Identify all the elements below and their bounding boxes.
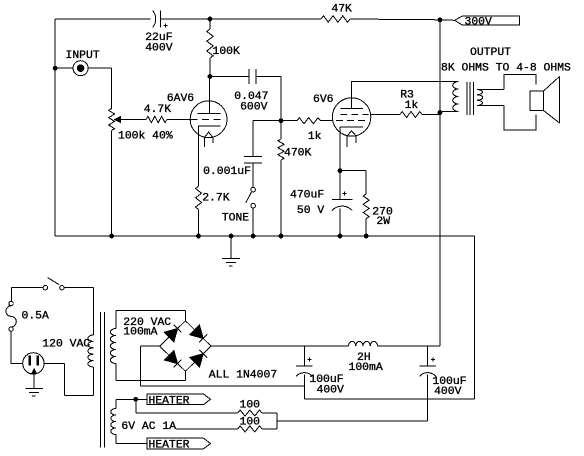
- ground symbol plug: [25, 374, 43, 396]
- wire plate to coupling cap: [210, 76, 249, 78]
- resistor R 2.7K: [196, 186, 230, 236]
- svg-text:4.7K: 4.7K: [144, 104, 172, 116]
- wire bridge positive out / filter line: [211, 345, 349, 347]
- wire 220V bottom to bridge: [116, 364, 186, 381]
- svg-text:INPUT: INPUT: [66, 50, 100, 62]
- junction 470uF ground: [338, 234, 342, 238]
- junction input ground: [53, 66, 57, 70]
- wire input left: [55, 67, 73, 69]
- transformer T2 core: [467, 82, 473, 115]
- svg-text:ALL 1N4007: ALL 1N4007: [209, 370, 277, 382]
- wire tone switch to ground: [252, 208, 254, 236]
- wire B-minus bus: [141, 385, 305, 387]
- svg-text:47K: 47K: [331, 4, 352, 16]
- potentiometer 100k 40%: [109, 109, 173, 237]
- wire secondary top to speaker: [477, 89, 504, 91]
- junction pot ground: [110, 234, 114, 238]
- junction 100K tap: [208, 17, 212, 21]
- junction cathode node: [338, 169, 342, 173]
- net flag 300V: [440, 16, 520, 29]
- wire plug to primary: [44, 363, 93, 395]
- resistor R3 1k screen: [371, 90, 440, 118]
- resistor R 100 upper: [238, 400, 278, 417]
- transformer T2 output primary: [453, 82, 459, 112]
- svg-text:600V: 600V: [240, 102, 268, 114]
- wire fuse to plug: [11, 331, 23, 363]
- transformer T1 secondary 220VAC: [110, 317, 171, 364]
- junction 270 ground: [364, 234, 368, 238]
- wire ground bus: [55, 235, 474, 237]
- svg-text:400V: 400V: [145, 43, 173, 55]
- svg-text:HEATER: HEATER: [149, 395, 190, 407]
- capacitor C5 100uF 400V: [296, 346, 344, 397]
- tube V1 6AV6: [167, 77, 227, 148]
- wire 6AV6 cathode: [198, 126, 200, 186]
- wire tone cap to switch: [252, 163, 254, 187]
- resistor R 470K: [278, 121, 312, 236]
- wire heater tap down: [136, 399, 238, 413]
- tube V2 6V6: [313, 81, 371, 147]
- capacitor C6 100uF 400V: [420, 346, 467, 399]
- junction 6AV6 plate node: [208, 75, 212, 79]
- diode D2 (top to right): [190, 325, 207, 342]
- ground symbol main: [222, 236, 240, 266]
- svg-text:470K: 470K: [284, 148, 312, 160]
- wire switch to transformer: [64, 288, 93, 335]
- capacitor C2 0.047 600V: [234, 69, 268, 114]
- jack J1 input: [73, 61, 88, 76]
- svg-text:100K: 100K: [213, 46, 241, 58]
- wire top B+ rail left segment: [55, 18, 150, 20]
- wire B+ rail right segment: [350, 18, 440, 21]
- wire primary bottom to B+ node: [440, 111, 459, 113]
- svg-text:6V6: 6V6: [313, 94, 334, 106]
- svg-text:1k: 1k: [308, 131, 322, 143]
- svg-text:100k 40%: 100k 40%: [118, 131, 173, 143]
- label INPUT: [66, 50, 100, 62]
- svg-text:0.5A: 0.5A: [22, 311, 50, 323]
- net flag HEATER lower: [147, 438, 211, 451]
- svg-text:TONE: TONE: [222, 213, 250, 225]
- transformer T1 6V winding: [111, 409, 176, 435]
- resistor R 1k grid stopper: [281, 118, 332, 144]
- switch SW power: [43, 278, 64, 290]
- wire 6V bottom lead: [116, 435, 147, 444]
- wire grid node to tone branch: [253, 121, 281, 157]
- wire mains top: [12, 288, 44, 302]
- capacitor C3 0.001uF: [203, 157, 262, 178]
- svg-text:0.001uF: 0.001uF: [203, 166, 251, 178]
- wire 100 bracket: [276, 413, 278, 429]
- wire B+ rail middle segment: [160, 18, 321, 20]
- junction 6V6 grid node: [279, 119, 283, 123]
- wire cathode branch to 270: [340, 171, 366, 194]
- wire cap2 to heater line: [277, 399, 428, 421]
- svg-text:OUTPUT: OUTPUT: [470, 47, 511, 59]
- resistor R 270 2W: [363, 194, 393, 236]
- svg-text:50 V: 50 V: [297, 205, 325, 217]
- svg-text:400V: 400V: [434, 386, 462, 398]
- fuse F1 0.5A: [6, 301, 49, 331]
- svg-text:1k: 1k: [405, 100, 419, 112]
- resistor R 47K: [321, 4, 352, 23]
- bridge rectifier outline: [160, 321, 211, 371]
- svg-text:2.7K: 2.7K: [202, 193, 230, 205]
- wire 300V vertical feed: [439, 20, 441, 346]
- label OUTPUT: [441, 47, 571, 74]
- junction tone ground: [251, 234, 255, 238]
- net flag HEATER upper: [147, 394, 211, 407]
- transformer T1 core: [101, 312, 105, 448]
- speaker LS1: [504, 74, 560, 130]
- diode D4 (bottom to right): [190, 350, 207, 367]
- wire secondary bottom to speaker: [477, 105, 504, 107]
- transformer T1 primary winding: [88, 335, 94, 367]
- svg-text:6V AC 1A: 6V AC 1A: [121, 421, 176, 433]
- svg-text:300V: 300V: [465, 17, 493, 29]
- svg-text:120 VAC: 120 VAC: [42, 338, 90, 350]
- resistor R 100K: [207, 19, 240, 77]
- svg-text:470uF: 470uF: [290, 190, 324, 202]
- junction primary bottom / screen node: [438, 111, 442, 115]
- wire filter line right: [378, 345, 441, 347]
- svg-text:6AV6: 6AV6: [167, 93, 195, 105]
- svg-text:100mA: 100mA: [349, 362, 383, 374]
- diode D1 (left to top): [164, 325, 181, 342]
- diode D3 (left to bottom): [164, 350, 181, 367]
- wire 220V top to bridge: [116, 311, 186, 329]
- capacitor C1 22uF 400V: [145, 11, 173, 55]
- wire coupling cap to grid node: [256, 77, 281, 121]
- svg-text:2W: 2W: [376, 216, 390, 228]
- transformer T2 secondary: [477, 90, 483, 106]
- junction ground stub: [229, 234, 233, 238]
- svg-text:8K OHMS TO 4-8 OHMS: 8K OHMS TO 4-8 OHMS: [441, 62, 571, 74]
- svg-text:100mA: 100mA: [123, 327, 157, 339]
- svg-text:100: 100: [240, 400, 261, 412]
- wire ground bus right drop: [474, 236, 476, 399]
- resistor R 100 lower: [176, 416, 277, 432]
- wire 6V top lead: [116, 399, 147, 408]
- switch SW TONE: [222, 187, 256, 224]
- label ALL 1N4007: [209, 370, 277, 382]
- junction heater tap: [134, 397, 138, 401]
- resistor R 4.7K: [144, 104, 191, 123]
- plug P1 120VAC: [23, 338, 91, 374]
- node top-left corner / wire left vertical: [54, 19, 56, 236]
- wire input right to pot: [88, 68, 112, 108]
- wire bottom bus: [304, 386, 474, 399]
- svg-text:100: 100: [240, 416, 261, 428]
- junction 470K ground: [279, 234, 283, 238]
- junction B+ rail end: [438, 18, 442, 22]
- wire bridge negative out: [141, 346, 160, 386]
- wire 6V6 cathode: [339, 127, 341, 199]
- inductor L1 2H choke: [349, 341, 383, 374]
- svg-text:400V: 400V: [317, 385, 345, 397]
- svg-text:HEATER: HEATER: [149, 440, 190, 452]
- capacitor C4 470uF 50V: [290, 190, 352, 236]
- junction 2.7K ground: [197, 234, 201, 238]
- wire 6V6 plate to output transformer: [352, 81, 459, 83]
